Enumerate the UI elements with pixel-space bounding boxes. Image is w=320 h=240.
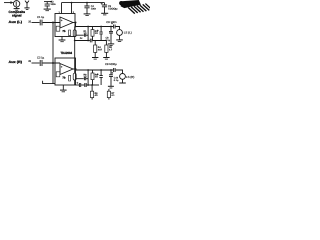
- svg-text:Aux (L): Aux (L): [9, 20, 23, 24]
- svg-text:TDA2004: TDA2004: [61, 51, 73, 55]
- svg-text:C9 1000µ: C9 1000µ: [105, 63, 117, 66]
- svg-text:100n: 100n: [91, 8, 97, 11]
- svg-text:1000µ: 1000µ: [108, 8, 118, 11]
- svg-text:C6 100n: C6 100n: [106, 21, 117, 24]
- svg-text:signal: signal: [12, 13, 22, 17]
- svg-text:2Ω: 2Ω: [95, 76, 98, 79]
- svg-text:Aux (R): Aux (R): [9, 60, 23, 64]
- svg-text:7b: 7b: [62, 30, 65, 33]
- svg-text:100n: 100n: [50, 3, 56, 6]
- svg-text:7b: 7b: [62, 77, 65, 80]
- svg-text:C2 1µ: C2 1µ: [37, 56, 45, 59]
- svg-text:2Ω: 2Ω: [95, 32, 98, 35]
- svg-text:1Ω: 1Ω: [84, 32, 87, 35]
- svg-text:4Ω7: 4Ω7: [98, 49, 103, 52]
- svg-text:0.1µ: 0.1µ: [106, 39, 111, 42]
- svg-text:LS (R): LS (R): [126, 75, 134, 79]
- svg-text:1Ω: 1Ω: [84, 76, 87, 79]
- svg-text:0.1µ: 0.1µ: [114, 79, 119, 82]
- svg-text:LS (L): LS (L): [124, 30, 132, 34]
- svg-text:C1 1µ: C1 1µ: [37, 16, 45, 19]
- svg-text:4Ω: 4Ω: [95, 94, 98, 97]
